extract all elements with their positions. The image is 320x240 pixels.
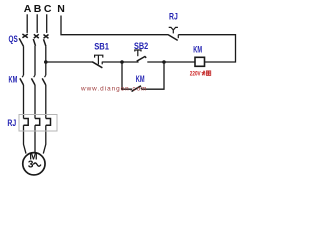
svg-text:SB1: SB1 bbox=[94, 41, 109, 52]
svg-text:KM: KM bbox=[136, 73, 145, 84]
svg-text:N: N bbox=[57, 3, 65, 15]
svg-text:QS: QS bbox=[9, 33, 18, 44]
svg-text:220V: 220V bbox=[190, 70, 201, 77]
svg-text:www.diangon.com: www.diangon.com bbox=[80, 86, 147, 93]
svg-text:C: C bbox=[44, 3, 52, 15]
svg-text:B: B bbox=[34, 3, 42, 15]
svg-text:3: 3 bbox=[28, 159, 34, 170]
svg-text:KM: KM bbox=[193, 44, 202, 55]
svg-text:RJ: RJ bbox=[169, 11, 178, 22]
svg-text:A: A bbox=[24, 3, 32, 15]
svg-text:RJ: RJ bbox=[7, 117, 16, 128]
svg-text:KM: KM bbox=[9, 74, 18, 85]
svg-text:SB2: SB2 bbox=[134, 40, 148, 51]
